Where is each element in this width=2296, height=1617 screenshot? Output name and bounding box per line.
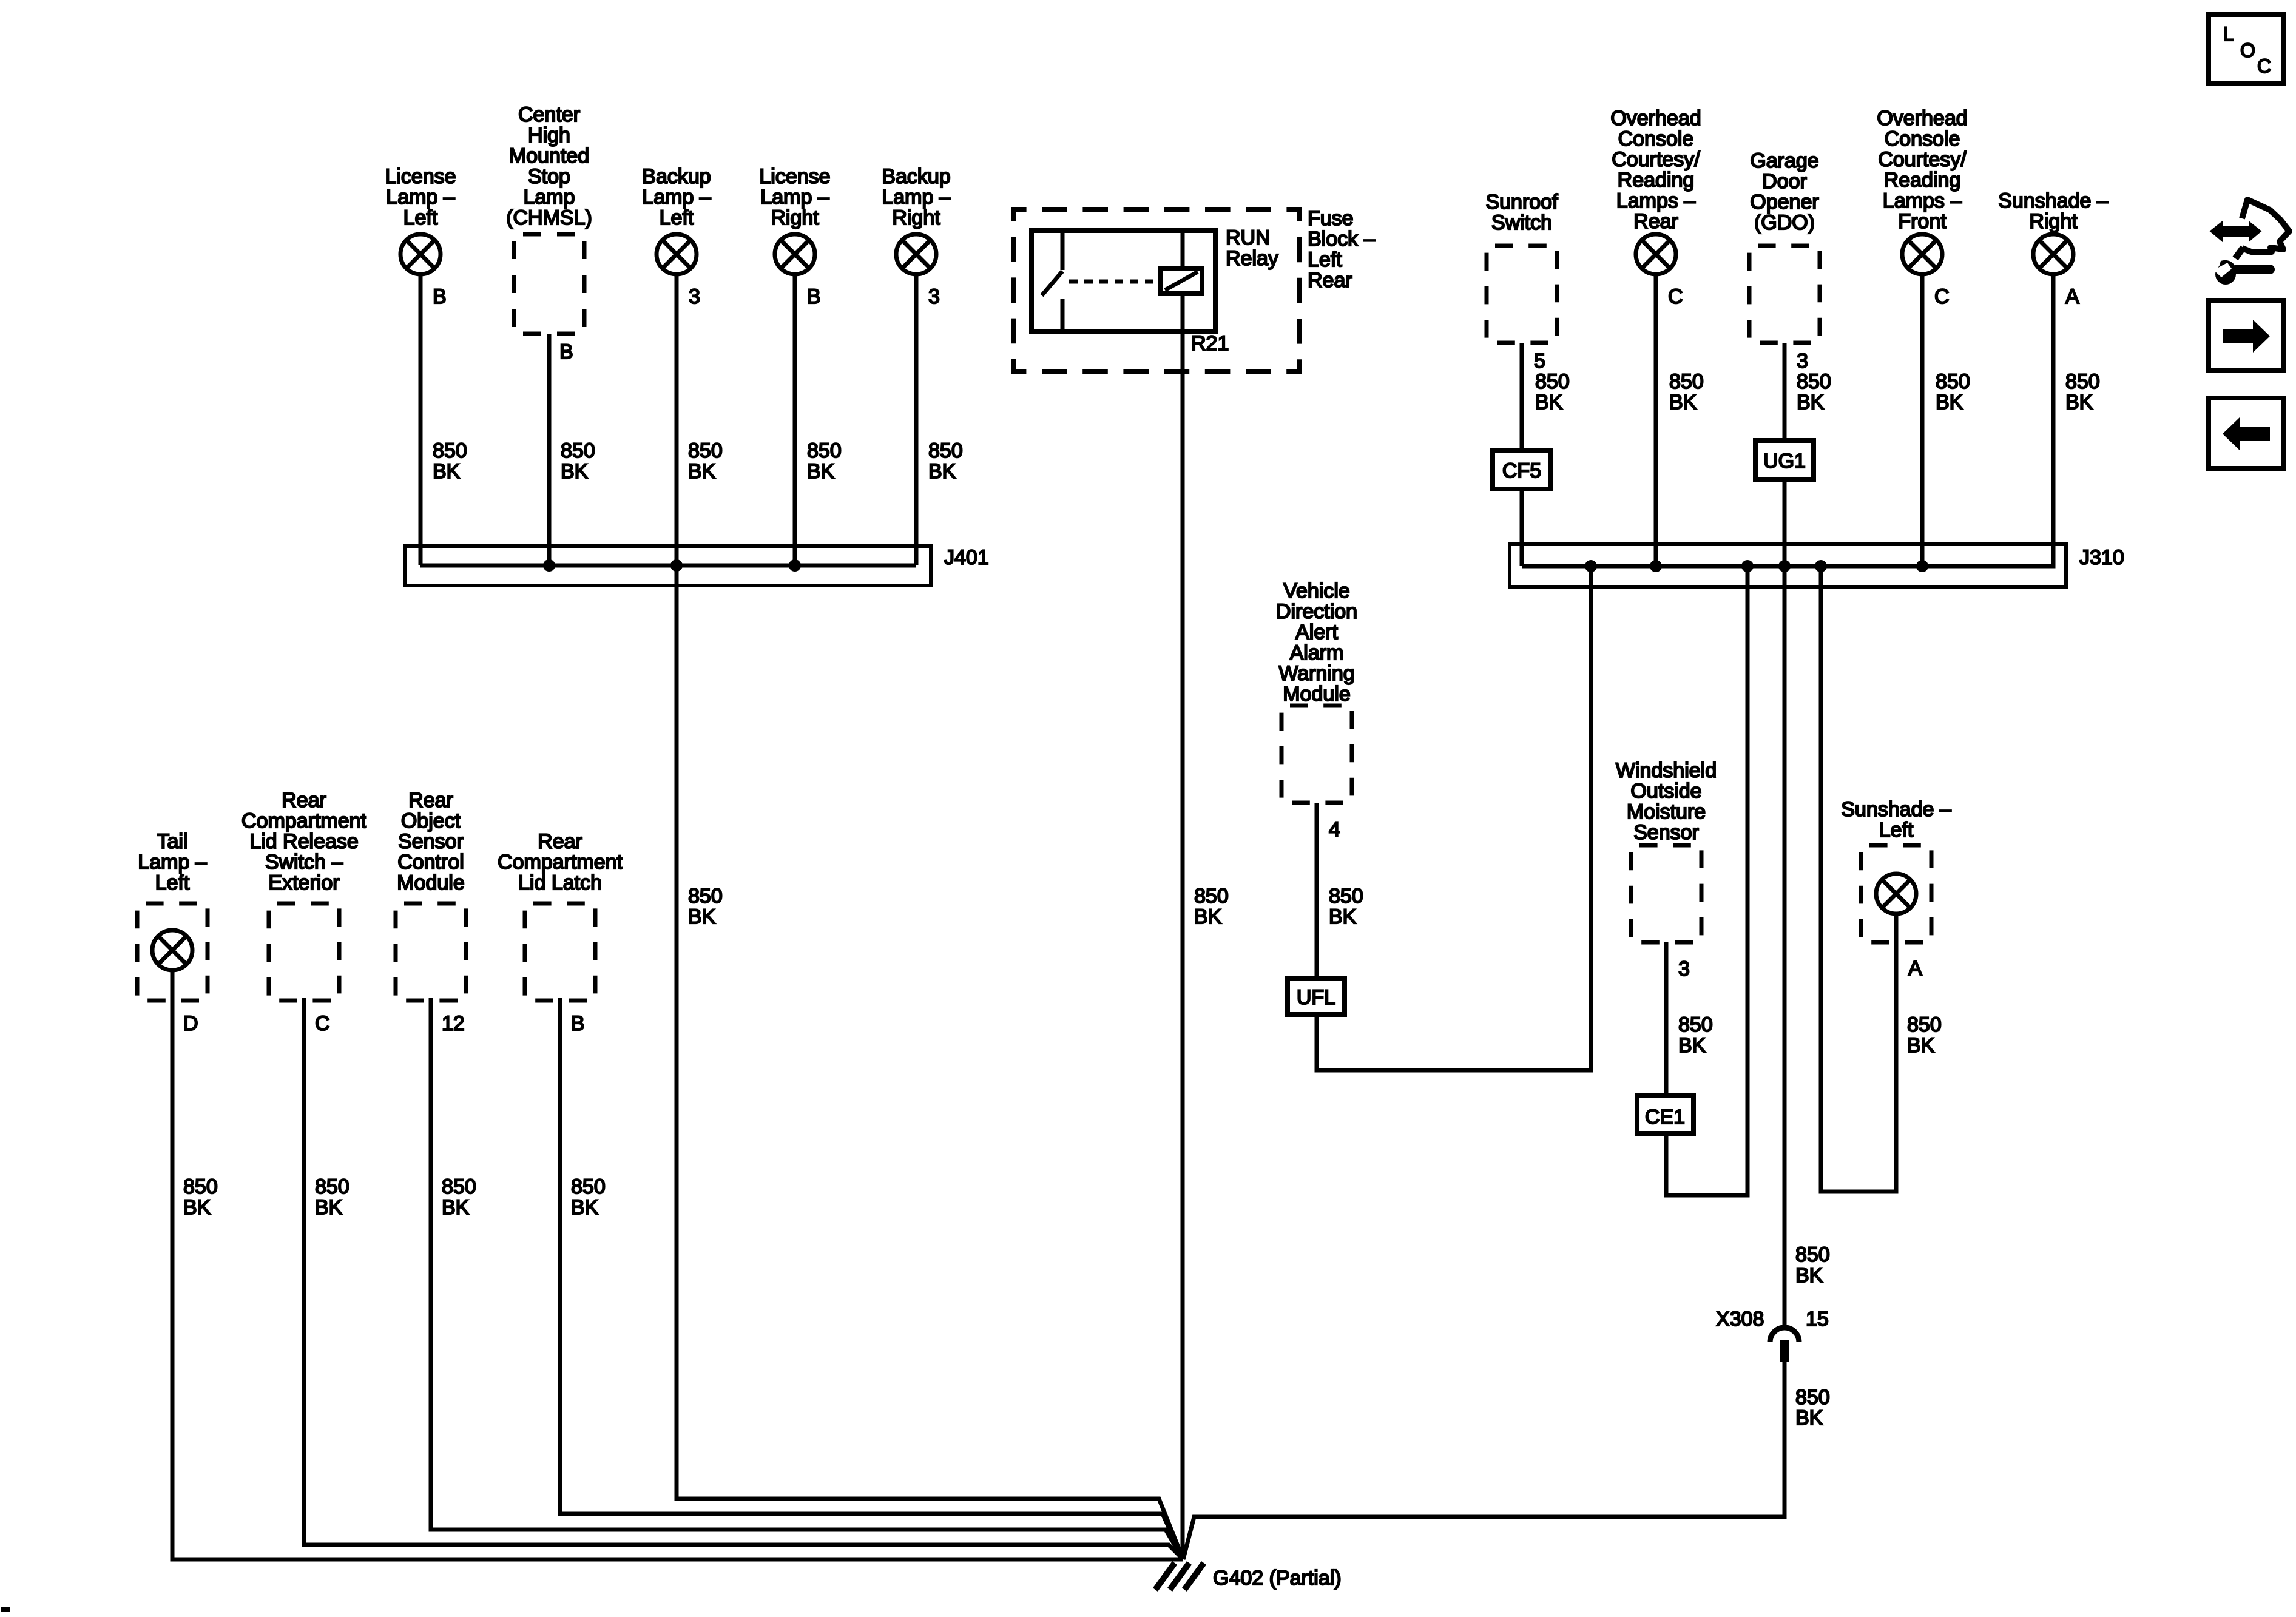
icon: arrow right box [2209, 300, 2284, 371]
svg-text:Lamp –: Lamp – [642, 186, 711, 209]
svg-text:Lamp: Lamp [523, 186, 575, 209]
svg-text:Lamps –: Lamps – [1883, 189, 1962, 212]
svg-text:Right: Right [892, 206, 940, 229]
svg-text:Front: Front [1898, 210, 1947, 233]
svg-text:850: 850 [688, 885, 723, 908]
svg-text:BK: BK [1194, 905, 1222, 928]
svg-text:850: 850 [433, 439, 467, 462]
wire UG1 to J310 [1783, 479, 1787, 566]
svg-text:License: License [759, 165, 830, 188]
svg-text:Lamp –: Lamp – [882, 186, 950, 209]
svg-text:Courtesy/: Courtesy/ [1878, 148, 1967, 171]
svg-text:Sunroof: Sunroof [1485, 191, 1558, 214]
svg-text:4: 4 [1329, 818, 1340, 841]
svg-text:Rear: Rear [408, 789, 453, 812]
svg-text:5: 5 [1534, 349, 1545, 373]
svg-text:A: A [2065, 285, 2079, 308]
svg-text:License: License [385, 165, 456, 188]
svg-text:BK: BK [1936, 391, 1963, 414]
svg-text:BK: BK [688, 460, 716, 483]
svg-text:Opener: Opener [1750, 191, 1818, 214]
icon: arrow left box [2209, 398, 2284, 468]
wire CF5 to J310 [1520, 489, 1524, 566]
svg-text:BK: BK [442, 1196, 470, 1219]
relay actuation dashed link [1069, 280, 1161, 284]
svg-text:850: 850 [561, 439, 595, 462]
svg-text:Rear: Rear [1633, 210, 1678, 233]
svg-text:Rear: Rear [1308, 269, 1352, 292]
component: Vehicle Direction Alert Alarm Warning Module dashed box [1276, 579, 1357, 803]
component: Rear Compartment Lid Latch dashed box [498, 830, 623, 1001]
icon: vehicle outline with arrow and wrench [2210, 200, 2289, 285]
svg-text:B: B [433, 285, 447, 308]
splice pack J310 [1510, 544, 2124, 587]
svg-text:BK: BK [183, 1196, 211, 1219]
svg-text:Lamps –: Lamps – [1616, 189, 1695, 212]
svg-text:3: 3 [689, 285, 700, 308]
svg-text:Exterior: Exterior [268, 871, 339, 894]
splice UG1 [1755, 441, 1814, 479]
svg-text:UG1: UG1 [1763, 450, 1806, 473]
svg-text:850: 850 [1936, 370, 1970, 393]
svg-text:850: 850 [807, 439, 842, 462]
svg-text:850: 850 [1678, 1013, 1713, 1036]
splice CF5 [1493, 450, 1551, 489]
svg-text:Overhead: Overhead [1610, 107, 1701, 130]
wire Sunshade Left to J310, pin A, 850 BK [1821, 566, 1942, 1192]
svg-text:BK: BK [807, 460, 835, 483]
wire Backup Lamp Left (J401) to G402, 850 BK [677, 565, 1183, 1559]
wire R21 relay to G402 ground, 850 BK [1183, 332, 1229, 1559]
component: Sunroof Switch dashed box [1485, 191, 1558, 343]
wire J310 to X308, 850 BK [1784, 566, 1830, 1326]
svg-text:C: C [315, 1012, 330, 1035]
svg-text:BK: BK [571, 1196, 599, 1219]
wire Sunshade Right to J310, pin A, 850 BK [2052, 274, 2100, 566]
svg-text:B: B [559, 340, 573, 363]
svg-text:850: 850 [1329, 885, 1363, 908]
svg-text:BK: BK [1329, 905, 1357, 928]
svg-text:Alert: Alert [1295, 621, 1338, 644]
svg-text:BK: BK [1795, 1406, 1823, 1430]
svg-text:CE1: CE1 [1645, 1106, 1685, 1129]
relay coil [1161, 231, 1202, 332]
svg-text:Rear: Rear [282, 789, 326, 812]
svg-text:J401: J401 [944, 546, 989, 569]
wire Tail Lamp Left to G402, pin D, 850 BK [172, 970, 1183, 1559]
wire GDO pin 3, 850 BK [1784, 343, 1831, 441]
svg-text:850: 850 [442, 1175, 476, 1198]
svg-text:BK: BK [688, 905, 716, 928]
svg-text:850: 850 [571, 1175, 606, 1198]
svg-text:BK: BK [1797, 391, 1825, 414]
svg-text:Sunshade –: Sunshade – [1998, 189, 2109, 212]
wire Overhead Front lamp to J310, pin C, 850 BK [1922, 274, 1970, 566]
svg-text:Overhead: Overhead [1877, 107, 1967, 130]
svg-text:Vehicle: Vehicle [1283, 579, 1350, 603]
svg-text:Alarm: Alarm [1290, 641, 1344, 664]
svg-text:850: 850 [1907, 1013, 1942, 1036]
lamp: Backup Lamp - Right [882, 165, 950, 274]
svg-text:G402 (Partial): G402 (Partial) [1213, 1567, 1342, 1590]
svg-text:Module: Module [397, 871, 465, 894]
svg-text:High: High [528, 124, 570, 147]
svg-text:Rear: Rear [538, 830, 582, 853]
svg-text:Reading: Reading [1618, 169, 1695, 192]
svg-text:X308: X308 [1716, 1308, 1764, 1331]
svg-text:Mounted: Mounted [509, 144, 589, 167]
svg-text:BK: BK [928, 460, 956, 483]
svg-text:BK: BK [1678, 1034, 1706, 1057]
svg-text:850: 850 [928, 439, 963, 462]
svg-text:Door: Door [1762, 170, 1807, 193]
svg-text:Lamp –: Lamp – [760, 186, 829, 209]
svg-text:Switch –: Switch – [265, 851, 343, 874]
svg-text:850: 850 [2065, 370, 2100, 393]
svg-text:Left: Left [1879, 819, 1914, 842]
lamp: License Lamp - Right [759, 165, 830, 274]
svg-text:J310: J310 [2079, 546, 2124, 569]
svg-text:850: 850 [1669, 370, 1704, 393]
svg-text:BK: BK [315, 1196, 343, 1219]
component: Garage Door Opener (GDO) dashed box [1749, 149, 1820, 343]
svg-text:Direction: Direction [1276, 600, 1357, 623]
svg-text:Right: Right [771, 206, 819, 229]
svg-text:Lid Latch: Lid Latch [518, 871, 602, 894]
svg-text:850: 850 [1795, 1386, 1830, 1409]
svg-text:BK: BK [1907, 1034, 1935, 1057]
svg-text:Compartment: Compartment [241, 809, 367, 832]
svg-text:Left: Left [660, 206, 694, 229]
wire moisture sensor pin 3, 850 BK [1666, 942, 1713, 1096]
svg-text:L: L [2223, 23, 2234, 45]
svg-text:Console: Console [1618, 127, 1694, 150]
svg-text:C: C [2257, 55, 2271, 77]
connector X308 pin 15 [1716, 1308, 1829, 1362]
svg-text:BK: BK [433, 460, 461, 483]
wire CE1 to J310 [1666, 566, 1747, 1195]
wire Overhead Rear lamp to J310, pin C, 850 BK [1656, 274, 1704, 566]
splice UFL [1288, 978, 1345, 1014]
svg-text:850: 850 [315, 1175, 349, 1198]
wire Backup Lamp Left to J401, pin 3, 850 BK [677, 274, 723, 565]
svg-text:Backup: Backup [882, 165, 950, 188]
svg-text:Outside: Outside [1630, 780, 1701, 803]
svg-text:BK: BK [1535, 391, 1563, 414]
svg-text:O: O [2240, 39, 2255, 61]
svg-text:Garage: Garage [1750, 149, 1818, 172]
svg-text:15: 15 [1806, 1308, 1829, 1331]
component: Center High Mounted Stop Lamp (CHMSL) dashed box [506, 103, 592, 334]
svg-text:Lamp –: Lamp – [138, 851, 206, 874]
relay switch contact [1042, 231, 1062, 332]
svg-text:3: 3 [1678, 957, 1690, 981]
svg-text:850: 850 [688, 439, 723, 462]
svg-text:Windshield: Windshield [1616, 759, 1717, 782]
svg-text:Courtesy/: Courtesy/ [1612, 148, 1700, 171]
svg-text:Backup: Backup [642, 165, 711, 188]
svg-text:C: C [1668, 285, 1683, 308]
wire X308 to G402, 850 BK [1183, 1360, 1830, 1559]
wire Backup Lamp Right to J401, pin 3, 850 BK [916, 274, 963, 565]
svg-text:Warning: Warning [1278, 662, 1354, 685]
svg-text:Center: Center [518, 103, 580, 126]
svg-text:RUN: RUN [1226, 226, 1271, 249]
wire Object Sensor Module to G402, pin 12, 850 BK [431, 998, 1183, 1559]
lamp: Sunshade - Right [1998, 189, 2109, 274]
svg-text:850: 850 [1795, 1243, 1830, 1266]
splice pack J401 [405, 546, 989, 586]
svg-text:3: 3 [1797, 349, 1808, 373]
svg-text:B: B [807, 285, 821, 308]
svg-text:Left: Left [1308, 248, 1342, 271]
svg-text:Lid Release: Lid Release [249, 830, 359, 853]
svg-text:R21: R21 [1191, 332, 1229, 355]
svg-text:B: B [571, 1012, 585, 1035]
wire License Lamp Left to J401, pin B, 850 BK [420, 274, 467, 565]
wire module pin 4, 850 BK [1317, 803, 1363, 978]
lamp: Tail Lamp - Left in dashed box [137, 830, 208, 1001]
lamp: Overhead Console Courtesy/Reading Lamps - Rear [1610, 107, 1701, 274]
svg-text:Sensor: Sensor [398, 830, 464, 853]
svg-text:Tail: Tail [157, 830, 187, 853]
svg-text:CF5: CF5 [1502, 459, 1541, 482]
svg-text:Block –: Block – [1308, 228, 1376, 251]
svg-text:BK: BK [561, 460, 589, 483]
svg-text:Right: Right [2029, 210, 2078, 233]
svg-text:3: 3 [928, 285, 940, 308]
svg-text:BK: BK [2065, 391, 2093, 414]
svg-text:Sensor: Sensor [1633, 821, 1699, 844]
ground G402 (Partial) [1155, 1563, 1342, 1590]
svg-text:D: D [183, 1012, 198, 1035]
wire Lid Latch to G402, pin B, 850 BK [560, 998, 1183, 1559]
svg-text:Compartment: Compartment [498, 851, 623, 874]
lamp: License Lamp - Left [385, 165, 456, 274]
svg-text:Relay: Relay [1226, 247, 1278, 270]
svg-text:Moisture: Moisture [1627, 800, 1706, 823]
svg-text:BK: BK [1669, 391, 1697, 414]
component: Rear Compartment Lid Release Switch - Exterior dashed box [241, 789, 367, 1001]
svg-text:BK: BK [1795, 1264, 1823, 1287]
wire Sunroof Switch pin 5, 850 BK [1522, 343, 1570, 450]
svg-text:A: A [1908, 957, 1922, 980]
svg-text:(CHMSL): (CHMSL) [506, 206, 592, 229]
svg-text:Sunshade –: Sunshade – [1841, 798, 1951, 821]
svg-text:Switch: Switch [1491, 211, 1552, 234]
component: Windshield Outside Moisture Sensor dashed box [1616, 759, 1717, 942]
svg-text:850: 850 [1535, 370, 1570, 393]
svg-text:Console: Console [1885, 127, 1960, 150]
svg-text:12: 12 [442, 1012, 465, 1035]
svg-text:850: 850 [183, 1175, 218, 1198]
component: Sunshade - Left dashed box with lamp [1841, 798, 1951, 942]
relay R21: RUN Relay box [1032, 226, 1278, 332]
wire CHMSL to J401, pin B, 850 BK [549, 334, 595, 565]
svg-text:Fuse: Fuse [1308, 207, 1354, 230]
wire License Lamp Right to J401, pin B, 850 BK [795, 274, 842, 565]
svg-text:Reading: Reading [1884, 169, 1961, 192]
splice CE1 [1637, 1096, 1693, 1133]
svg-text:850: 850 [1797, 370, 1831, 393]
svg-text:UFL: UFL [1297, 986, 1335, 1009]
wire UFL to J310 [1317, 566, 1591, 1070]
svg-text:Module: Module [1283, 683, 1351, 706]
lamp: Overhead Console Courtesy/Reading Lamps - Front [1877, 107, 1967, 274]
fuse block dashed outline: Fuse Block - Left Rear [1013, 207, 1376, 371]
svg-text:C: C [1934, 285, 1950, 308]
svg-text:850: 850 [1194, 885, 1229, 908]
svg-text:Object: Object [401, 809, 461, 832]
svg-text:(GDO): (GDO) [1754, 211, 1815, 234]
stray mark bottom left [1, 1607, 10, 1612]
svg-text:Control: Control [397, 851, 464, 874]
lamp: Backup Lamp - Left [642, 165, 711, 274]
svg-text:Lamp –: Lamp – [386, 186, 454, 209]
svg-text:Stop: Stop [528, 165, 570, 188]
icon: LOC box [2209, 15, 2284, 83]
svg-text:Left: Left [155, 871, 190, 894]
wire Lid Release Switch to G402, pin C, 850 BK [304, 998, 1183, 1559]
svg-text:Left: Left [403, 206, 438, 229]
component: Rear Object Sensor Control Module dashed box [396, 789, 466, 1001]
